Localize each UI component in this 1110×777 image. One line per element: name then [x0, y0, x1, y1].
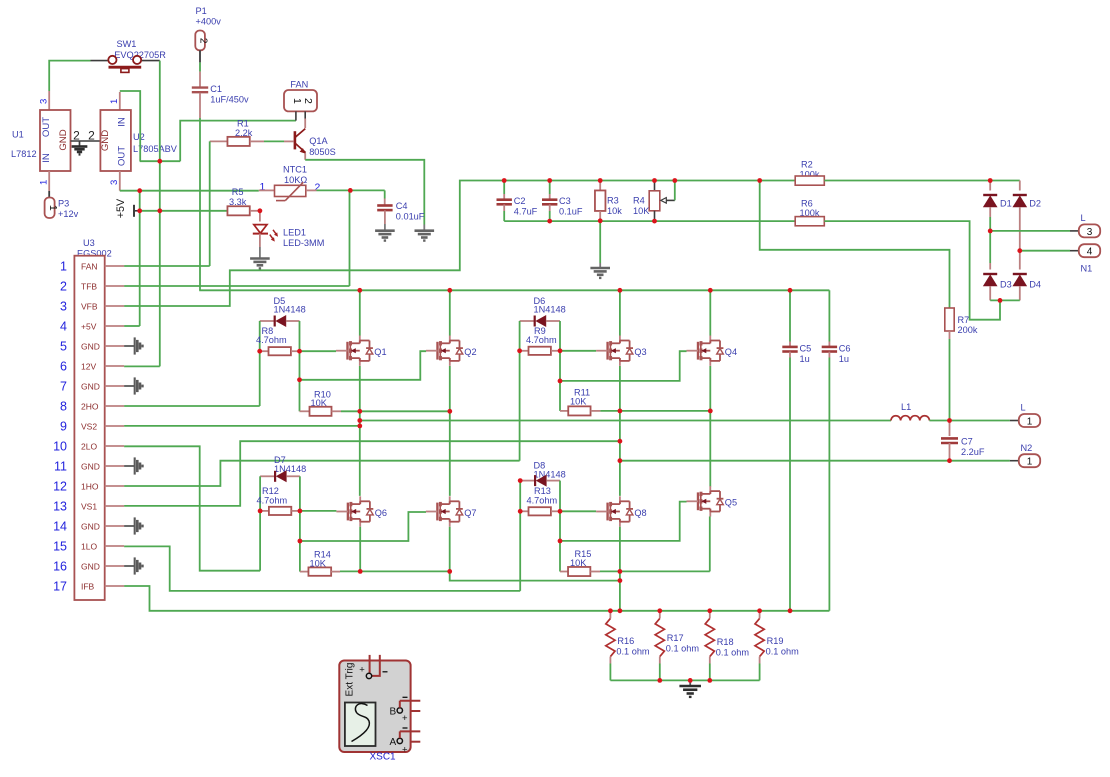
junction R12 left — [258, 509, 263, 514]
transistor Q1A 8050S — [294, 131, 297, 149]
svg-text:Q1: Q1 — [374, 347, 386, 357]
junction R15/Q8 source — [618, 569, 623, 574]
svg-text:U1: U1 — [12, 130, 24, 140]
wire D6 right column — [559, 321, 561, 411]
wire Q1 drain — [359, 290, 361, 335]
svg-text:+400v: +400v — [196, 17, 222, 27]
wire Q3 source to Q8 drain — [619, 366, 621, 496]
svg-text:LED-3MM: LED-3MM — [283, 238, 324, 248]
wire P1 to C1 — [199, 62, 201, 71]
svg-text:C5: C5 — [800, 343, 812, 353]
wire D6 left column / 1HO — [519, 321, 521, 461]
junction bus R17 — [657, 608, 662, 613]
U3 pin 9 VS2 — [105, 425, 124, 427]
junction +5V rail — [137, 208, 142, 213]
capacitor C2 4.7uF — [503, 181, 505, 195]
svg-text:0.1 ohm: 0.1 ohm — [666, 644, 700, 654]
svg-text:Q6: Q6 — [375, 508, 387, 518]
svg-text:C3: C3 — [559, 196, 571, 206]
resistor R19 0.1 ohm — [759, 611, 761, 619]
XSC1 channel A terminal — [397, 738, 402, 743]
svg-text:1: 1 — [47, 205, 59, 211]
svg-text:R4: R4 — [633, 196, 645, 206]
wire N node to connector 4 — [1020, 250, 1070, 252]
wire bridge bottom — [990, 299, 1020, 301]
wire U3 pin15 1LO — [124, 546, 520, 591]
svg-text:FAN: FAN — [290, 80, 308, 90]
svg-text:2.2uF: 2.2uF — [961, 447, 985, 457]
wire L output — [360, 420, 891, 422]
svg-text:U2: U2 — [133, 132, 145, 142]
svg-text:L7812: L7812 — [11, 149, 37, 159]
U3 pin 8 2HO — [105, 405, 124, 407]
potentiometer R4 10K — [654, 181, 656, 191]
wire R6 to bridge bottom — [824, 221, 1000, 320]
svg-text:10KΩ: 10KΩ — [284, 175, 307, 185]
junction R10/QA source — [357, 409, 362, 414]
svg-text:1N4148: 1N4148 — [274, 464, 306, 474]
ground at U3 pin 11 — [134, 457, 136, 474]
wire Q4 source to Q5 drain — [709, 366, 711, 487]
svg-text:2: 2 — [315, 182, 321, 194]
diode D1 — [989, 181, 991, 191]
svg-text:15: 15 — [53, 539, 67, 553]
svg-text:C1: C1 — [210, 84, 222, 94]
U3 pin 16 GND — [105, 565, 124, 567]
regulator U2 L7805ABV — [119, 92, 121, 110]
junction R8 left — [257, 349, 262, 354]
wire gate Q4 jog — [560, 351, 687, 381]
svg-text:R18: R18 — [717, 637, 734, 647]
wire gate Q2 jog — [300, 351, 427, 380]
svg-text:4: 4 — [1087, 247, 1093, 258]
svg-text:NTC1: NTC1 — [283, 164, 307, 174]
wire R10 to sources — [341, 410, 450, 412]
svg-text:11: 11 — [54, 459, 67, 473]
svg-text:+: + — [402, 713, 408, 724]
svg-text:GND: GND — [81, 381, 100, 391]
wire D7 right column — [299, 476, 301, 571]
svg-text:Q7: Q7 — [464, 508, 476, 518]
svg-text:R5: R5 — [232, 187, 244, 197]
ground at U3 pin 14 — [134, 517, 136, 534]
junction R4 bottom — [652, 219, 657, 224]
svg-text:U3: U3 — [83, 238, 95, 248]
svg-text:Q4: Q4 — [725, 347, 737, 357]
ground at U3 pin 16 — [134, 557, 136, 574]
wire lower divider to bridge bottom — [504, 220, 795, 222]
junction rail Q4 — [708, 288, 713, 293]
wire Q1A emitter to ground — [305, 160, 424, 225]
junction Q7 gate branch — [298, 539, 303, 544]
svg-text:200k: 200k — [958, 325, 978, 335]
svg-text:+: + — [402, 745, 408, 756]
wire SW1 left to U1 OUT — [49, 61, 90, 91]
U3 pin 14 GND — [105, 525, 124, 527]
svg-text:R7: R7 — [958, 315, 970, 325]
svg-text:0.1uF: 0.1uF — [559, 206, 583, 216]
wire R1 to U3 pin1 FAN — [209, 141, 211, 266]
wire R2 to bridge top — [824, 180, 1020, 182]
diode D2 — [1019, 181, 1021, 191]
svg-text:N1: N1 — [1081, 264, 1093, 274]
svg-text:VFB: VFB — [81, 301, 98, 311]
junction bus Q8 — [618, 608, 623, 613]
svg-text:10k: 10k — [607, 206, 622, 216]
svg-text:XSC1: XSC1 — [370, 752, 397, 763]
capacitor C4 0.01uF — [384, 190, 386, 198]
capacitor C1 1uF/450v — [199, 72, 201, 87]
MOSFET Q5 — [709, 486, 711, 494]
U3 pin 11 GND — [105, 465, 124, 467]
svg-text:D2: D2 — [1029, 198, 1041, 208]
svg-text:L: L — [1081, 213, 1086, 223]
svg-text:C7: C7 — [961, 437, 973, 447]
svg-text:12V: 12V — [81, 361, 96, 371]
wire D5 right column — [299, 321, 301, 411]
junction U2OUT to +5V flag rail — [137, 188, 142, 193]
svg-text:GND: GND — [81, 461, 100, 471]
svg-text:9: 9 — [60, 419, 67, 433]
U3 pin 1 FAN — [105, 265, 124, 267]
wire gate Q6 — [300, 510, 337, 512]
svg-text:GND: GND — [81, 341, 100, 351]
U3 pin 15 1LO — [105, 545, 124, 547]
junction Q4 gate branch — [558, 379, 563, 384]
svg-text:Q8: Q8 — [634, 508, 646, 518]
svg-text:1HO: 1HO — [81, 481, 99, 491]
wire Q7 source down — [450, 527, 620, 581]
svg-text:+12v: +12v — [58, 209, 79, 219]
svg-text:0.1 ohm: 0.1 ohm — [616, 647, 650, 657]
wire current-sense bus IFB — [124, 586, 829, 611]
U1-U2 GND wire and ground — [71, 140, 101, 142]
wire D5 left column / 2HO — [259, 321, 261, 406]
junction R9 right — [558, 348, 563, 353]
junction L node — [988, 229, 993, 234]
svg-text:10K: 10K — [570, 397, 587, 407]
XSC1 channel B terminal — [397, 708, 402, 713]
wire R15 to Q8 source — [600, 570, 620, 572]
svg-text:A: A — [389, 737, 396, 748]
MOSFET Q1 — [359, 336, 361, 344]
junction Q7 path to Q8 col — [618, 578, 623, 583]
svg-text:1: 1 — [109, 99, 120, 104]
junction C3 bottom — [547, 219, 552, 224]
U3 pin 4 +5V — [105, 325, 124, 327]
junction R11/Q4 source — [708, 409, 713, 414]
resistor R7 200k — [945, 308, 954, 331]
wire gate Q5 jog — [560, 502, 687, 541]
junction Q2 gate branch — [297, 377, 302, 382]
svg-text:4.7ohm: 4.7ohm — [526, 335, 557, 345]
svg-text:2: 2 — [88, 129, 95, 143]
svg-text:2HO: 2HO — [81, 401, 99, 411]
svg-text:+: + — [359, 665, 365, 676]
svg-text:R2: R2 — [801, 160, 813, 170]
wire Q6 source down — [359, 527, 361, 572]
junction rail C5 — [788, 288, 793, 293]
svg-text:3: 3 — [1087, 227, 1093, 238]
junction Q5 gate branch — [558, 539, 563, 544]
junction R13 left — [518, 509, 523, 514]
wire U3 pin13 VS1 — [124, 441, 620, 506]
junction D8 left — [518, 478, 523, 483]
resistor R17 0.1 ohm — [659, 611, 661, 619]
svg-text:2: 2 — [197, 38, 208, 44]
svg-text:5: 5 — [60, 339, 67, 353]
svg-text:GND: GND — [100, 130, 111, 151]
capacitor C3 0.1uF — [549, 181, 551, 195]
svg-text:1: 1 — [1027, 457, 1033, 468]
MOSFET Q8 — [619, 496, 621, 504]
U1 pin1 lead to P3 — [48, 171, 50, 191]
wire D8 right column — [559, 481, 561, 572]
junction R13 right — [558, 509, 563, 514]
svg-text:R1: R1 — [237, 118, 249, 128]
junction bus C5 — [788, 608, 793, 613]
junction phase B / VS1 — [618, 439, 623, 444]
svg-text:IN: IN — [41, 153, 52, 163]
svg-text:Q1A: Q1A — [309, 136, 328, 146]
junction rail R4 — [652, 178, 657, 183]
svg-text:R3: R3 — [607, 196, 619, 206]
junction R5/LED1 — [258, 208, 263, 213]
U3 pin 6 12V — [105, 365, 124, 367]
wire Q2 drain — [449, 290, 451, 335]
ground at sense resistors — [689, 680, 691, 685]
wire +HV top rail — [199, 289, 829, 291]
svg-text:Q2: Q2 — [464, 347, 476, 357]
wire L node down to D3 — [989, 231, 991, 263]
wire to FAN pin1 — [180, 121, 296, 162]
svg-text:1N4148: 1N4148 — [534, 470, 566, 480]
svg-text:4: 4 — [60, 319, 67, 333]
junction rail Q1 — [357, 288, 362, 293]
svg-text:Ext Trig: Ext Trig — [345, 663, 356, 697]
MOSFET Q7 — [449, 496, 451, 504]
LED1 LED-3MM — [259, 211, 261, 222]
svg-text:10: 10 — [53, 439, 67, 453]
junction R3 bottom — [598, 218, 603, 223]
svg-text:4.7ohm: 4.7ohm — [256, 335, 287, 345]
junction phase A / VS2 — [357, 424, 362, 429]
junction bottom R17 — [657, 678, 662, 683]
svg-text:4.7uF: 4.7uF — [514, 206, 538, 216]
regulator U1 L7812 — [48, 91, 50, 110]
svg-text:D1: D1 — [1000, 198, 1012, 208]
svg-text:R17: R17 — [667, 633, 684, 643]
svg-text:3: 3 — [39, 99, 50, 104]
junction bus R19 — [757, 608, 762, 613]
wire gate Q7 jog — [300, 512, 426, 541]
U3 pin 12 1HO — [105, 485, 124, 487]
svg-text:Q5: Q5 — [725, 498, 737, 508]
U3 pin 10 2LO — [105, 445, 124, 447]
wire U3 pin9 VS2 — [124, 425, 360, 427]
wire gate Q8 — [560, 510, 596, 512]
svg-text:1: 1 — [1027, 416, 1033, 427]
svg-text:16: 16 — [53, 559, 67, 573]
wire U2 IN from switched 12V — [120, 91, 140, 161]
svg-text:1N4148: 1N4148 — [274, 304, 306, 314]
svg-text:GND: GND — [81, 521, 100, 531]
ground at R3/C3 — [599, 221, 601, 263]
svg-text:14: 14 — [53, 519, 67, 533]
svg-text:+5V: +5V — [115, 198, 127, 218]
svg-text:D3: D3 — [1000, 280, 1012, 290]
+5V power flag — [133, 205, 135, 217]
wire Q2 source to Q7 drain — [449, 366, 451, 496]
svg-text:0.1 ohm: 0.1 ohm — [716, 648, 750, 658]
wire VFB net: pin3 to divider rail — [124, 181, 795, 307]
junction rail C3 — [547, 178, 552, 183]
svg-text:VS1: VS1 — [81, 501, 97, 511]
wire phase A column — [359, 366, 361, 496]
svg-text:1uF/450v: 1uF/450v — [210, 95, 249, 105]
svg-text:1: 1 — [39, 180, 50, 185]
ground at U3 pin 5 — [134, 337, 136, 354]
junction 12V/branch — [157, 159, 162, 164]
svg-text:VS2: VS2 — [81, 421, 97, 431]
svg-text:3: 3 — [60, 299, 67, 313]
svg-text:2LO: 2LO — [81, 441, 97, 451]
junction rail R4 wiper — [672, 178, 677, 183]
capacitor C5 1u — [789, 290, 791, 341]
wire U2 OUT +5V — [120, 190, 259, 192]
junction bus R16 — [608, 608, 613, 613]
svg-text:P3: P3 — [58, 198, 69, 208]
svg-text:6: 6 — [60, 359, 67, 373]
junction bridge top D1 — [988, 178, 993, 183]
MOSFET Q2 — [449, 336, 451, 344]
svg-text:FAN: FAN — [81, 261, 98, 271]
svg-text:L: L — [1021, 403, 1026, 413]
resistor R3 10k — [599, 181, 601, 191]
junction R9 left — [517, 348, 522, 353]
MOSFET Q4 — [709, 336, 711, 344]
junction C7/N2 — [947, 458, 952, 463]
svg-text:2: 2 — [60, 279, 67, 293]
U3 pin 3 VFB — [105, 305, 124, 307]
junction R10/Q2 source — [447, 409, 452, 414]
wire U3 pin8 2HO — [124, 405, 260, 407]
svg-text:SW1: SW1 — [117, 39, 137, 49]
svg-text:1: 1 — [60, 259, 67, 273]
ground at Q1A emitter — [423, 225, 425, 231]
svg-text:0.1 ohm: 0.1 ohm — [766, 647, 800, 657]
capacitor C7 2.2uF — [949, 421, 951, 437]
wire Q8 source to bus — [619, 527, 621, 611]
svg-text:4.7ohm: 4.7ohm — [257, 495, 288, 505]
connector P3 +12v — [45, 198, 55, 219]
wire U3 pin6 12V — [124, 365, 160, 367]
svg-text:17: 17 — [53, 579, 67, 593]
wire D8 left column / 1LO — [519, 481, 521, 591]
wire D1 to L node — [989, 217, 991, 231]
wire switched-12V horizontal y161 — [140, 160, 181, 162]
wire U3 pin4 +5V — [124, 325, 140, 327]
junction rail R7 branch — [757, 178, 762, 183]
U3 pin 17 IFB — [105, 585, 124, 587]
junction phase B / N2 wire — [618, 458, 623, 463]
diode D4 — [1019, 251, 1021, 270]
wire Q5 source link — [620, 570, 710, 572]
svg-text:1u: 1u — [839, 354, 849, 364]
wire gate Q1 — [300, 350, 337, 352]
svg-text:13: 13 — [53, 499, 67, 513]
wire L node to connector 3 — [990, 230, 1070, 232]
svg-text:OUT: OUT — [41, 117, 52, 137]
connector 4 N1 output — [1079, 244, 1100, 257]
MOSFET Q6 — [359, 496, 361, 504]
U3 pin 13 VS1 — [105, 505, 124, 507]
wire Q3 drain — [619, 290, 621, 335]
wire +5V link down — [139, 191, 141, 326]
wire Q4 drain — [709, 290, 711, 335]
junction rail Q2 — [447, 288, 452, 293]
junction R12 right — [298, 509, 303, 514]
svg-text:10K: 10K — [633, 206, 650, 216]
wire U3 pin2 TFB to NTC — [124, 285, 349, 287]
junction rail Q3 — [618, 288, 623, 293]
wire U3 pin12 1HO — [124, 461, 519, 486]
oscilloscope XSC1 — [339, 661, 410, 753]
wire NTC1 pin2 to C4 — [317, 189, 385, 191]
svg-text:GND: GND — [58, 129, 69, 150]
svg-text:GND: GND — [81, 561, 100, 571]
svg-text:1: 1 — [291, 98, 303, 104]
svg-text:D4: D4 — [1029, 280, 1041, 290]
U3 pin 5 GND — [105, 345, 124, 347]
junction rail R3 — [598, 178, 603, 183]
svg-text:C2: C2 — [514, 196, 526, 206]
wire 12V column SW1 to U3 pin6 — [159, 61, 161, 367]
wire D7 left column / 2LO — [259, 476, 261, 570]
svg-text:7: 7 — [60, 379, 67, 393]
svg-text:C4: C4 — [396, 201, 408, 211]
wire gate Q3 — [560, 350, 596, 352]
svg-text:3: 3 — [109, 180, 120, 185]
svg-text:1u: 1u — [800, 354, 810, 364]
junction TFB tap — [348, 188, 353, 193]
svg-text:C6: C6 — [839, 343, 851, 353]
junction phase A / L wire — [357, 418, 362, 423]
junction bridge bottom — [998, 298, 1003, 303]
U3 pin 2 TFB — [105, 285, 124, 287]
junction N node — [1017, 248, 1022, 253]
junction rail C2 — [502, 178, 507, 183]
ground at LED1 — [259, 247, 261, 258]
wire sense bottom — [610, 679, 759, 681]
wire N2 output — [620, 460, 1010, 462]
svg-text:IFB: IFB — [81, 581, 95, 591]
svg-text:R6: R6 — [801, 198, 813, 208]
svg-text:+5V: +5V — [81, 321, 97, 331]
ground at U3 pin 7 — [134, 377, 136, 394]
svg-text:B: B — [389, 706, 396, 717]
svg-text:IN: IN — [117, 117, 128, 127]
wire +400V column C1 down to H-bridge rail — [199, 118, 201, 290]
junction bus R18 — [707, 608, 712, 613]
junction R8 right — [297, 349, 302, 354]
wire R11 to sources — [600, 410, 710, 412]
junction bottom R18 — [707, 678, 712, 683]
svg-text:1N4148: 1N4148 — [534, 304, 566, 314]
MOSFET Q3 — [619, 336, 621, 344]
junction R11/Q3 source — [618, 409, 623, 414]
svg-text:R19: R19 — [767, 636, 784, 646]
